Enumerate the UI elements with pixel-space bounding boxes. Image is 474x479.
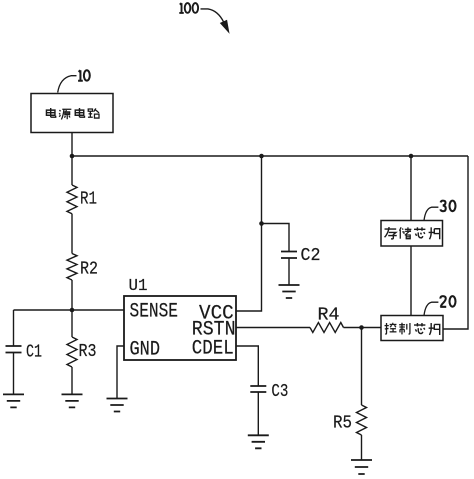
label 电源电路 [46,108,99,120]
node: junction R5 [359,325,364,330]
node: junction SENSE [70,308,75,313]
wire C1 bottom [13,353,15,395]
capacitor C1 [6,346,22,353]
wire R5 top [361,328,363,406]
svg-text:CDEL: CDEL [192,338,234,361]
label 20 [440,296,455,307]
svg-text:U1: U1 [129,276,148,295]
ground C3 [248,435,269,448]
wire: SENSE horizontal [14,309,125,311]
op-amp U1 box [124,296,236,360]
ground C1 [3,394,24,407]
svg-text:R1: R1 [80,189,97,210]
capacitor C2 [281,252,297,259]
svg-text:R4: R4 [318,305,340,326]
node: junction C2 branch [259,221,264,226]
wire R3 bottom [71,367,73,394]
wire C2 branch [262,224,290,252]
wire storage chip top [410,156,412,221]
wire between R1 R2 [71,214,73,254]
wire R3 top [71,310,73,337]
label 100 [179,3,198,13]
ground C2 [279,285,300,298]
svg-text:R3: R3 [79,341,97,362]
label 存储芯片 [385,227,440,239]
wire GND pin [117,346,124,399]
wire R2 to SENSE node [71,280,73,310]
ground U1 [107,399,128,412]
leader 20 [424,302,438,315]
wire: power box to top rail [71,133,73,157]
label 控制芯片 [385,323,440,335]
leader 30 [424,207,438,220]
wire R4 to control chip [344,327,382,329]
svg-text:R2: R2 [80,259,98,280]
svg-text:C3: C3 [271,381,288,402]
resistor R5 [357,405,367,435]
wire VCC to top rail [236,156,262,311]
node: junction top rail at power [70,154,75,159]
box: control chip 20 [381,316,443,341]
label 30 [440,201,455,212]
resistor R3 [67,337,77,367]
wire RSTN to R4 [236,327,310,329]
svg-text:C2: C2 [301,245,321,266]
wire C3 bottom [257,392,259,435]
leader 10 [58,76,77,93]
wire: right rail down to control chip [443,156,468,329]
box: storage chip 30 [381,221,443,247]
arrow 100 [201,9,224,22]
wire CDEL to C3 [236,346,258,386]
node: junction top rail at storage chip [409,154,414,159]
svg-text:GND: GND [130,338,161,361]
box: power supply circuit 10 [31,94,113,133]
resistor R4 [310,323,344,333]
svg-text:R5: R5 [333,413,352,434]
wire: left chain R1 R2 [71,156,73,185]
wire C1 top [13,310,15,346]
resistor R1 [67,185,77,214]
resistor R2 [67,254,77,281]
wire storage to control [410,246,412,316]
ground R5 [351,460,372,474]
node: junction top rail at VCC branch [259,154,264,159]
wire R5 bottom [361,435,363,460]
svg-text:SENSE: SENSE [130,301,179,324]
wire: top rail horizontal [72,155,468,157]
label 10 [78,70,90,81]
capacitor C3 [250,386,266,392]
ground R3 [62,394,83,407]
wire C2 bottom [288,258,290,285]
svg-text:C1: C1 [26,342,42,363]
